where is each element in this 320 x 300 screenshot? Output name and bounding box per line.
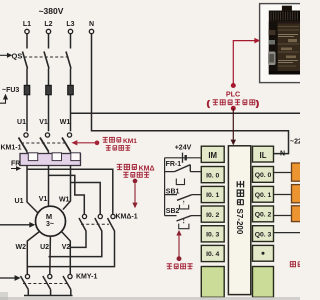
svg-text:+24V: +24V xyxy=(175,144,192,151)
svg-text:FR-1: FR-1 xyxy=(166,161,182,168)
svg-text:KMY-1: KMY-1 xyxy=(76,274,98,281)
svg-text:W2: W2 xyxy=(16,244,27,251)
svg-text:I0. 4: I0. 4 xyxy=(206,251,219,258)
svg-text:L3: L3 xyxy=(66,21,74,28)
svg-text:FR: FR xyxy=(11,161,20,168)
svg-text:~220V: ~220V xyxy=(290,139,300,146)
svg-text:Q0. 3: Q0. 3 xyxy=(255,231,272,238)
svg-text:V2: V2 xyxy=(62,244,71,251)
svg-text:Q0. 2: Q0. 2 xyxy=(255,212,272,219)
svg-text:~FU3: ~FU3 xyxy=(2,87,19,94)
svg-text:QS: QS xyxy=(12,52,23,61)
svg-text:~380V: ~380V xyxy=(39,6,64,16)
svg-text:W1: W1 xyxy=(59,197,70,204)
svg-text:L1: L1 xyxy=(23,21,31,28)
svg-text:I0. 2: I0. 2 xyxy=(206,212,219,219)
svg-text:KMΔ-1: KMΔ-1 xyxy=(116,214,138,221)
svg-text:I0. 0: I0. 0 xyxy=(206,172,219,179)
svg-text:): ) xyxy=(256,101,258,108)
svg-text:IM: IM xyxy=(208,151,217,160)
svg-text:L2: L2 xyxy=(44,21,52,28)
svg-text:KMΔ: KMΔ xyxy=(139,166,155,173)
svg-text:S7-200: S7-200 xyxy=(235,209,244,235)
svg-text:IL: IL xyxy=(260,151,267,160)
svg-text:W1: W1 xyxy=(60,119,71,126)
svg-text:3~: 3~ xyxy=(46,221,54,228)
svg-text:U1: U1 xyxy=(15,198,24,205)
svg-text:N: N xyxy=(89,21,94,28)
svg-text:M: M xyxy=(46,212,52,221)
svg-text:PLC: PLC xyxy=(226,90,240,99)
svg-text:Q0. 1: Q0. 1 xyxy=(255,192,272,199)
svg-text:N: N xyxy=(280,151,285,158)
svg-text:V1: V1 xyxy=(39,196,48,203)
svg-text:SB2: SB2 xyxy=(166,208,180,215)
svg-text:KM1: KM1 xyxy=(123,138,137,145)
svg-text:I0. 1: I0. 1 xyxy=(206,192,219,199)
svg-text:SB1: SB1 xyxy=(166,189,180,196)
svg-text:U2: U2 xyxy=(40,244,49,251)
svg-text:U1: U1 xyxy=(17,119,26,126)
svg-text:KM1-1: KM1-1 xyxy=(1,145,22,152)
svg-text:I0. 3: I0. 3 xyxy=(206,232,219,239)
svg-text:V1: V1 xyxy=(39,119,48,126)
svg-text:Q0. 0: Q0. 0 xyxy=(255,172,272,179)
